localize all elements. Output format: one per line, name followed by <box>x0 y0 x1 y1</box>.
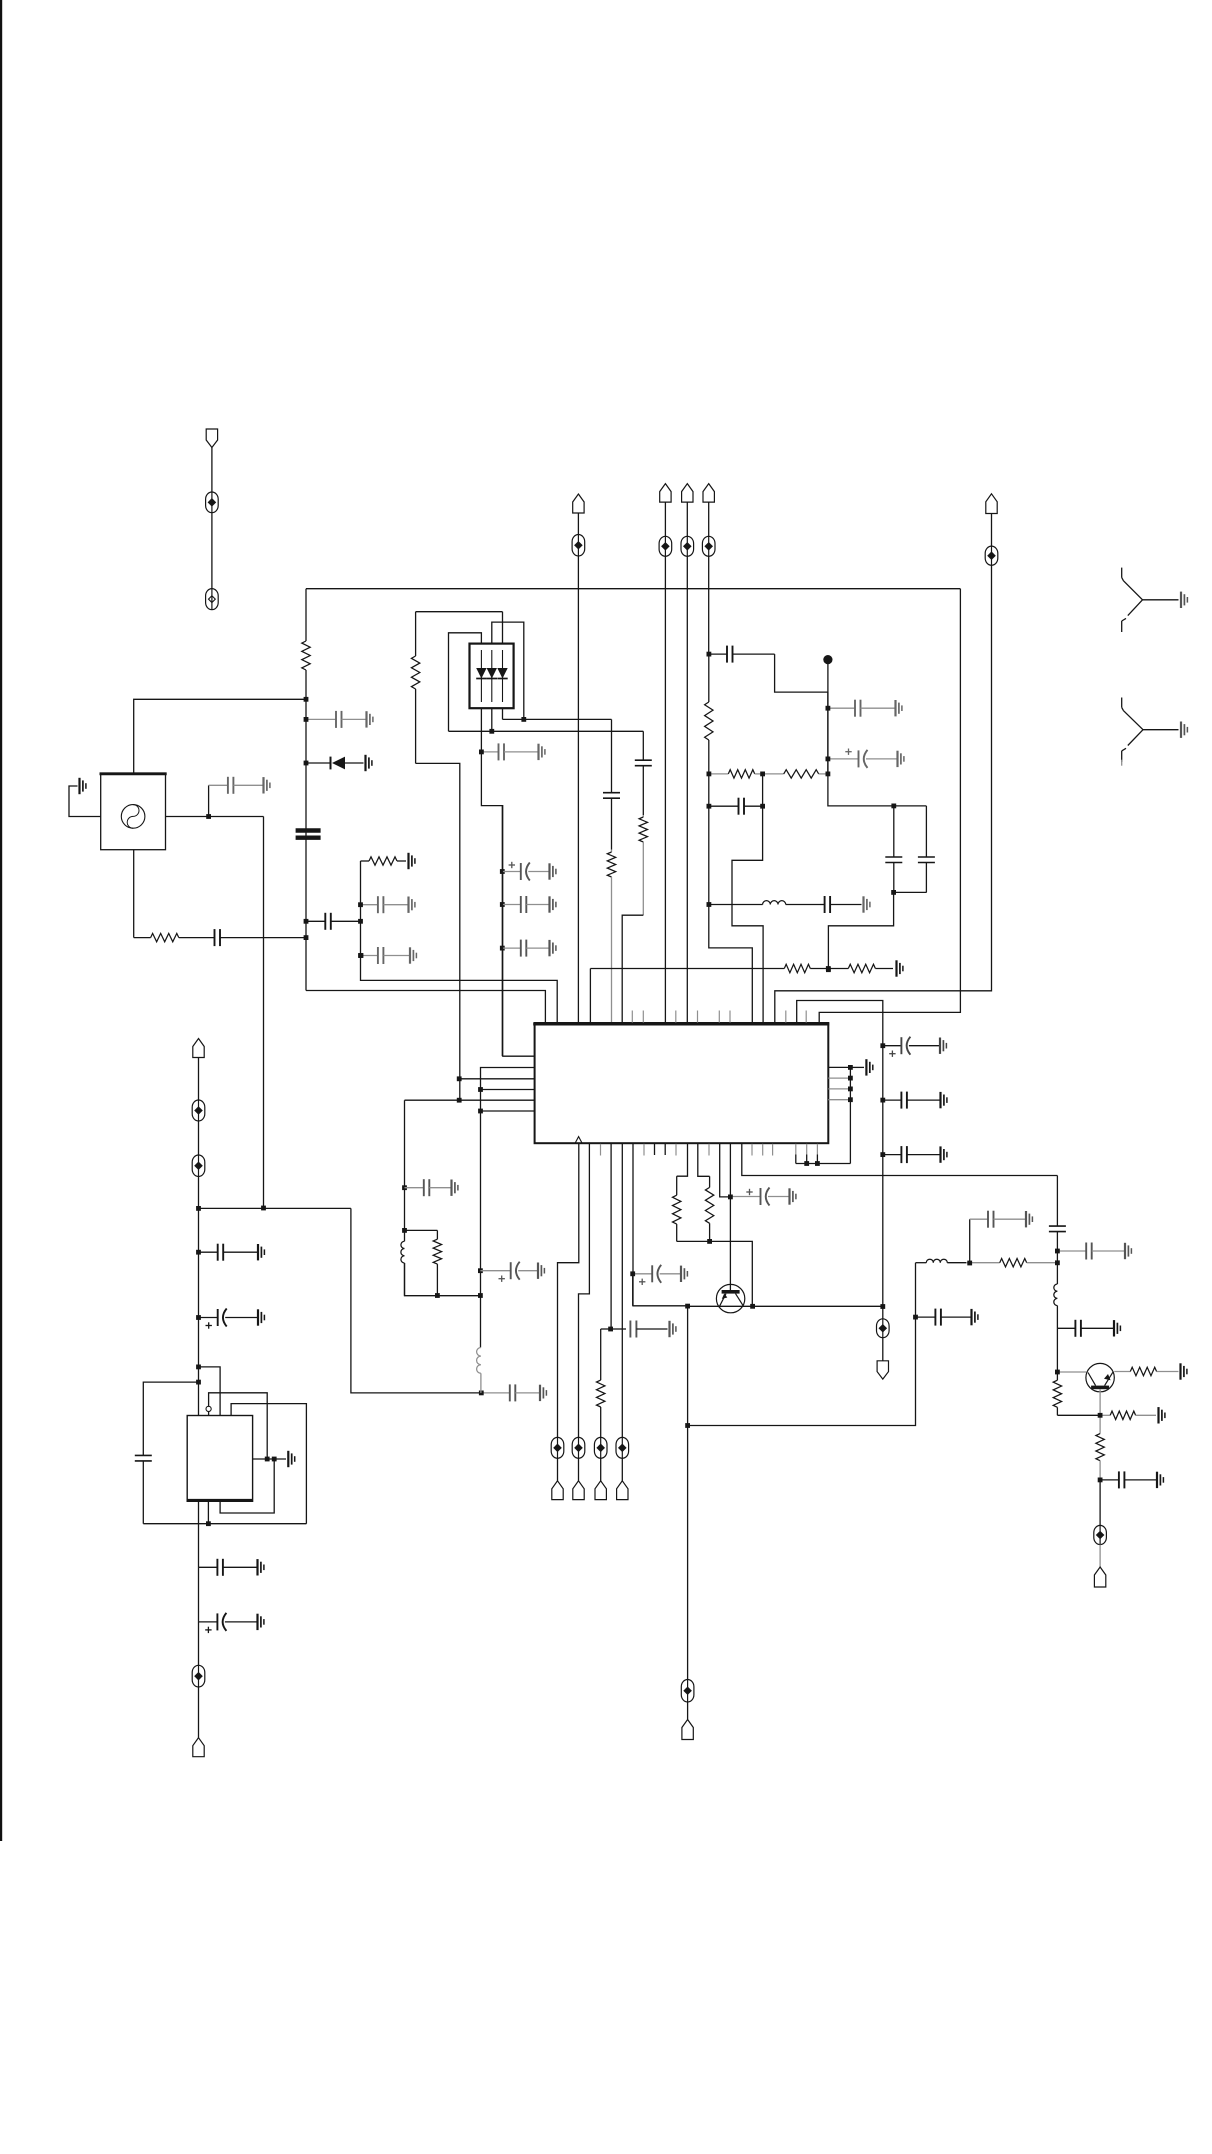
capacitor C28 <box>916 1309 978 1326</box>
wire crystal top to box rail <box>134 699 306 773</box>
ferrite bead FB-J7 <box>572 535 585 557</box>
junction <box>304 697 309 702</box>
wire J6 wire <box>708 502 710 536</box>
wire pin B8 jog <box>720 1144 731 1197</box>
wire sub bottom pin b <box>207 1501 209 1523</box>
capacitor C30 <box>1049 1176 1066 1252</box>
connector J14 (down) <box>877 1361 888 1379</box>
wire L2 cap up <box>969 1219 971 1263</box>
ferrite bead FB-J10 <box>572 1437 585 1458</box>
capacitor C17 <box>828 700 902 717</box>
wire sub bubble loop <box>208 1411 210 1416</box>
resistor R17 <box>1096 1415 1104 1480</box>
ferrite bead FB3 <box>192 1100 205 1121</box>
junction <box>304 761 309 766</box>
scan edge artifact <box>0 0 2 1841</box>
wire rail y=719.4 <box>503 718 612 720</box>
wire sub outer loop left <box>143 1382 198 1455</box>
capacitor C40 (bus bottom) <box>481 1384 546 1401</box>
crystal oscillator X1 box <box>100 773 167 850</box>
junction <box>1098 1413 1103 1418</box>
capacitor C25 (polarized) <box>633 1265 688 1285</box>
ferrite bead FB4 <box>192 1155 205 1177</box>
capacitor C7 <box>214 929 306 946</box>
junction <box>707 652 712 657</box>
resistor R5 <box>607 850 615 1023</box>
wire x=828 mid <box>827 692 829 774</box>
junction <box>479 1391 484 1396</box>
wire FB8 wire <box>1099 1545 1101 1567</box>
sub IC U2 <box>187 1416 252 1502</box>
IC pin stub (top) <box>785 1011 787 1023</box>
wire Q2 collector stub <box>1099 1389 1101 1415</box>
wire C16 elbow <box>775 654 828 692</box>
capacitor C26 <box>601 1321 676 1338</box>
wire loop A bottom <box>416 763 460 1100</box>
capacitor C34 <box>405 1179 458 1196</box>
wire diode box feed <box>502 612 504 644</box>
wire J5 wire <box>686 502 688 536</box>
resistor R16 <box>1100 1411 1156 1419</box>
ferrite bead FB1 <box>206 492 219 513</box>
wire rail y=1306.3 <box>688 1305 883 1307</box>
wire J8 drop <box>775 565 992 1022</box>
wire IC pin R <box>828 1077 850 1079</box>
wire J4 drop <box>664 556 666 1022</box>
wire jog to pin <box>622 915 643 1022</box>
wire base wire Q2 <box>1057 1371 1086 1373</box>
capacitor C19 <box>709 798 763 815</box>
junction <box>1098 1478 1103 1483</box>
wire J4 wire <box>664 502 666 536</box>
wire J7 wire <box>577 513 579 535</box>
junction <box>402 1185 407 1190</box>
junction <box>265 1457 270 1462</box>
IC pin stub (top) <box>729 1011 731 1023</box>
junction <box>304 935 309 940</box>
wire J2-b <box>198 1121 200 1155</box>
wire J10 wire <box>578 1458 580 1481</box>
junction <box>707 902 712 907</box>
connector J7 (right top) <box>573 494 584 513</box>
wire J1-a <box>211 448 213 493</box>
wire sub IC right pin to ground <box>253 1458 286 1460</box>
IC pin stub (bottom) <box>675 1144 677 1156</box>
wire box bottom wire <box>306 991 545 1023</box>
capacitor C4 <box>199 1559 264 1576</box>
resistor R11 <box>673 1176 681 1241</box>
diode D2b <box>487 650 497 702</box>
connector J8 (4th) <box>986 494 997 514</box>
wire x502.3 seg <box>501 806 503 1057</box>
connector J15 <box>1094 1567 1105 1587</box>
ground (R16) <box>1159 1407 1165 1423</box>
inductor L4 <box>401 1241 405 1295</box>
connector J9 <box>552 1481 563 1500</box>
wire IC pin L5 <box>405 1099 535 1101</box>
wire x762.6 down <box>732 806 763 1022</box>
IC pin stub (bottom) <box>708 1144 710 1156</box>
junction <box>826 967 831 972</box>
connector J2 (left column top) <box>193 1039 204 1058</box>
wire sub bottom rail <box>143 1523 306 1525</box>
inductor L5 <box>477 1348 481 1393</box>
IC U1 <box>533 1023 829 1143</box>
ferrite bead FB-J4 <box>659 536 672 556</box>
wire FB7 wire <box>882 1338 884 1361</box>
junction <box>750 1304 755 1309</box>
junction <box>826 757 831 762</box>
IC pin (bottom trio) <box>795 1144 797 1164</box>
ferrite bead FB-J11 <box>594 1437 607 1458</box>
junction <box>478 1087 483 1092</box>
wire bus to ground <box>850 1066 864 1068</box>
connector J5 <box>682 484 693 503</box>
junction <box>359 953 364 958</box>
ground (R3) <box>409 853 415 869</box>
ground (crystal left) <box>80 778 86 794</box>
junction <box>304 919 309 924</box>
junction <box>500 869 505 874</box>
capacitor C15 <box>635 731 652 815</box>
junction <box>196 1380 201 1385</box>
capacitor C8 <box>306 711 373 728</box>
ground (IC right) <box>866 1059 872 1075</box>
diode D1 <box>306 755 372 771</box>
inverter bubble (sub IC pin) <box>206 1406 211 1411</box>
wire left col e <box>198 1687 200 1738</box>
wire right bus <box>849 1067 851 1163</box>
wire drop x=350.9 <box>351 1208 481 1393</box>
IC pin stub (bottom) <box>751 1144 753 1156</box>
junction <box>848 1087 853 1092</box>
wire branch up <box>208 785 210 816</box>
wire R15 elbow <box>1057 1414 1100 1416</box>
junction <box>304 717 309 722</box>
capacitor C18 (polarized) <box>828 749 904 768</box>
IC pin (bottom trio) <box>806 1144 808 1164</box>
junction <box>728 1195 733 1200</box>
IC pin stub (top) <box>675 1011 677 1023</box>
wire crystal bottom <box>133 850 135 938</box>
capacitor C20 <box>820 896 862 913</box>
resistor R12 <box>705 1176 713 1241</box>
connector J12 <box>617 1481 628 1500</box>
capacitor C27 (polarized) <box>730 1188 796 1206</box>
wire J6 drop <box>708 556 710 654</box>
wire diode out 1 <box>481 708 535 1056</box>
IC pin stub (top) <box>697 1011 699 1023</box>
capacitor C33 <box>1100 1471 1163 1488</box>
wire IC pin L1 <box>503 1055 535 1057</box>
wire crystal-right drop x=263.5 <box>263 817 265 1209</box>
wire rail y=731.3 <box>449 730 644 732</box>
wire x708.9 seg2 <box>709 774 753 1023</box>
wire left col through sub <box>198 1501 200 1567</box>
wire branch y=1425.5 <box>688 1263 916 1426</box>
wire box top edge <box>306 588 960 590</box>
capacitor C10 <box>306 913 361 930</box>
ground (R14) <box>1181 1363 1187 1379</box>
wire J9 wire <box>557 1458 559 1481</box>
wire sub bottom pin loop <box>220 1459 274 1513</box>
ground (L1 line) <box>864 896 870 912</box>
capacitor C21 <box>885 806 902 893</box>
wire box right edge <box>819 589 960 1023</box>
wire emitter rail <box>632 1274 634 1306</box>
wire IC pin R <box>828 1088 850 1090</box>
diode D2a <box>476 650 486 702</box>
wire IC pin R <box>828 1099 850 1101</box>
resistor R14 (emitter) <box>1114 1367 1178 1375</box>
wire box left edge mid <box>305 699 307 990</box>
connector J13 <box>682 1720 693 1740</box>
junction <box>435 1293 440 1298</box>
junction <box>707 1239 712 1244</box>
inductor L3 <box>1054 1263 1058 1329</box>
junction <box>880 1152 885 1157</box>
junction <box>358 919 363 924</box>
wire pin B3 <box>610 1144 612 1329</box>
wire FB6 wire <box>687 1702 689 1720</box>
wire J11 wire <box>600 1458 602 1481</box>
IC pin stub (bottom) <box>664 1144 666 1155</box>
junction <box>196 1206 201 1211</box>
inductor L2 <box>916 1259 967 1263</box>
wire x1057.4 seg <box>1056 1251 1058 1263</box>
junction <box>880 1304 885 1309</box>
resistor R19 <box>597 1329 605 1437</box>
ferrite bead FB-J9 <box>551 1437 564 1458</box>
net blob <box>823 655 832 664</box>
capacitor C13 <box>481 743 545 760</box>
wire pin B9 <box>729 1144 731 1291</box>
wire IC pin L2 bus <box>481 1068 535 1112</box>
junction <box>760 772 765 777</box>
wire diode out 2 <box>491 708 493 731</box>
wire blob stem <box>828 664 927 806</box>
junction <box>521 717 526 722</box>
wire pin B5 <box>633 1144 688 1306</box>
wire x404.5 drop <box>404 1100 406 1241</box>
junction <box>685 1304 690 1309</box>
junction <box>402 1228 407 1233</box>
wire pin B4 <box>621 1144 623 1438</box>
wire left col c <box>198 1567 200 1622</box>
wire x=360.5 vertical <box>361 861 558 1023</box>
wire rail y=1241.4 <box>677 1241 753 1306</box>
ferrite bead FB7 <box>877 1319 890 1338</box>
capacitor C24 <box>883 1146 947 1163</box>
capacitor C6 <box>209 777 270 794</box>
loop A left + resistor R4 <box>411 612 419 764</box>
IC pin stub (bottom) <box>643 1144 645 1156</box>
capacitor C32 <box>1057 1320 1120 1337</box>
junction <box>500 902 505 907</box>
IC pin (bottom trio) <box>816 1144 818 1164</box>
junction <box>196 1365 201 1370</box>
wire x762.6 seg <box>762 774 764 806</box>
wire C21 drop <box>828 892 893 969</box>
junction <box>196 1250 201 1255</box>
capacitor C37 <box>502 896 556 913</box>
capacitor C22 <box>918 806 935 892</box>
antenna Y2 <box>1122 698 1188 766</box>
connector J10 <box>573 1481 584 1500</box>
junction <box>478 1268 483 1273</box>
resistor R6 <box>639 815 647 915</box>
IC pin stub (bottom) <box>600 1144 602 1156</box>
wire pin B2 jog <box>579 1144 590 1438</box>
junction <box>272 1457 277 1462</box>
resistor R1 + capacitor C7 line <box>134 933 214 941</box>
junction <box>608 1327 613 1332</box>
wire loop C <box>449 633 482 732</box>
IC pin stub (bottom) <box>654 1144 656 1155</box>
junction <box>891 890 896 895</box>
wire IC pin L3 <box>459 1078 534 1080</box>
junction <box>826 772 831 777</box>
IC pin stub (bottom) <box>762 1144 764 1156</box>
wire J12 wire <box>621 1458 623 1481</box>
junction <box>196 1315 201 1320</box>
capacitor C14 <box>603 719 620 849</box>
wire sub pin jog a <box>199 1367 221 1416</box>
junction <box>630 1271 635 1276</box>
resistor R8 <box>763 770 828 778</box>
wire bus x480.5 <box>480 1111 482 1348</box>
junction <box>206 1521 211 1526</box>
junction <box>358 953 363 958</box>
connector J1 (top-left, down) <box>206 429 217 448</box>
IC pin stub (bottom) <box>772 1144 774 1156</box>
IC pin stub (top) <box>642 1011 644 1023</box>
junction <box>848 1097 853 1102</box>
junction <box>1055 1249 1060 1254</box>
IC pin stub (top) <box>718 1011 720 1023</box>
wire pin B10 right <box>742 1144 1058 1176</box>
junction <box>358 902 363 907</box>
junction <box>880 1098 885 1103</box>
IC pin-1 caret <box>575 1137 582 1143</box>
connector J4 <box>660 484 671 503</box>
junction <box>457 1076 462 1081</box>
resistor R10 <box>828 964 893 972</box>
wire pin B6 jog <box>677 1144 688 1176</box>
junction <box>478 1109 483 1114</box>
junction <box>206 814 211 819</box>
capacitor C36 (polarized) <box>502 862 556 881</box>
oscillator symbol <box>121 805 145 829</box>
junction <box>760 804 765 809</box>
box left edge upper + resistor R2 <box>302 589 310 700</box>
junction <box>848 1076 853 1081</box>
wire x404.5 tail <box>405 1263 481 1296</box>
resistor R7 <box>709 770 763 778</box>
wire sub right loop <box>231 1404 306 1524</box>
transistor Q2 <box>1086 1363 1114 1391</box>
wire res line stub <box>589 969 591 1023</box>
wire IC pin L6 <box>481 1110 535 1112</box>
resistor R9 <box>590 964 828 972</box>
ground (sub IC) <box>288 1451 294 1467</box>
wire J7 drop <box>577 556 579 1023</box>
junction <box>500 946 505 951</box>
diode array box D2 <box>470 644 514 709</box>
wire J5 drop <box>686 556 688 1022</box>
capacitor C1 <box>199 1244 265 1261</box>
capacitor C38 <box>502 940 556 957</box>
ferrite bead FB-J12 <box>616 1437 629 1458</box>
junction <box>804 1161 809 1166</box>
transistor Q1 <box>716 1284 744 1312</box>
resistor R20 <box>705 654 713 774</box>
wire x882.8 tail <box>882 1307 884 1319</box>
capacitor C22b (polarized) <box>883 1037 947 1057</box>
wire crystal left pin to ground <box>69 786 101 817</box>
wire rail y=1230.4 <box>405 1229 438 1231</box>
wire IC pin R <box>828 1066 850 1068</box>
IC pin stub (top) <box>805 1011 807 1023</box>
diode D2c <box>497 650 507 702</box>
junction <box>967 1261 972 1266</box>
wire IC pin L4 <box>481 1089 535 1091</box>
capacitor C3 (sub-circuit) <box>135 1455 152 1524</box>
capacitor C9 (feedthrough, thick) <box>296 831 321 838</box>
wire x1100 tail <box>1099 1480 1101 1526</box>
resistor R3 to ground <box>361 857 407 865</box>
connector J3 (bottom-left) <box>193 1738 204 1757</box>
junction <box>489 729 494 734</box>
wire left col d <box>198 1622 200 1665</box>
capacitor C11 <box>361 896 415 913</box>
wire C21/22 bottom rail <box>894 891 927 893</box>
ferrite bead FB5 <box>192 1665 205 1687</box>
wire left column vertical <box>198 1177 200 1416</box>
wire diode out 3 <box>502 708 504 719</box>
connector J6 <box>703 484 714 503</box>
capacitor C23 <box>883 1092 947 1109</box>
ferrite bead FB6 <box>681 1680 694 1703</box>
capacitor C35 (polarized) <box>480 1262 544 1282</box>
ground (R10) <box>897 960 903 976</box>
wire J2-a <box>198 1058 200 1101</box>
capacitor C16 <box>709 646 775 663</box>
wire x1057.4 to base <box>1056 1328 1058 1372</box>
resistor R15 <box>1053 1372 1061 1415</box>
junction <box>848 1065 853 1070</box>
junction <box>891 804 896 809</box>
junction <box>1055 1260 1060 1265</box>
junction <box>479 750 484 755</box>
antenna Y1 <box>1122 568 1188 632</box>
wire elbow U1-b <box>797 1001 883 1307</box>
junction <box>457 1098 462 1103</box>
wire loop A <box>416 611 503 613</box>
IC pin stub (top) <box>631 1011 633 1023</box>
resistor R13 <box>966 1259 1057 1267</box>
wire sub bubble loop top <box>209 1393 268 1459</box>
wire bottom pins rail <box>796 1163 851 1165</box>
ferrite bead FB-J6 <box>702 536 715 556</box>
junction <box>261 1206 266 1211</box>
wire rail to sub-circuit <box>199 1207 351 1209</box>
ferrite bead FB-J5 <box>681 536 694 556</box>
capacitor C31 <box>1057 1243 1131 1260</box>
junction <box>478 1293 483 1298</box>
wire crystal right pin <box>166 816 264 818</box>
capacitor C2 (polarized) <box>199 1309 265 1329</box>
